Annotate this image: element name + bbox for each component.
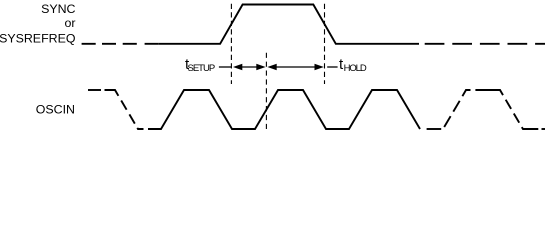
wire OSCIN low corner dash right <box>522 127 539 129</box>
node setup reference dashed line <box>230 4 232 84</box>
wire tHOLD leader <box>327 66 337 68</box>
wire SYNC low dashed right <box>425 43 545 45</box>
svg-text:SYNC: SYNC <box>41 2 75 16</box>
wire OSCIN solid clock <box>148 90 420 129</box>
wire OSCIN first corner piece <box>105 90 119 96</box>
wire SYNC low dashed left <box>82 43 159 45</box>
svg-text:HOLD: HOLD <box>344 63 367 74</box>
wire SYNC pulse solid <box>159 5 419 44</box>
wire OSCIN low corner dash <box>137 128 143 129</box>
svg-text:SETUP: SETUP <box>188 63 215 74</box>
svg-text:SYSREFREQ: SYSREFREQ <box>0 32 76 46</box>
wire OSCIN low end dash <box>542 128 545 130</box>
wire tSETUP arrow <box>233 64 266 71</box>
wire tHOLD arrow <box>267 64 323 71</box>
wire OSCIN rising edge dash 2 <box>453 101 459 112</box>
wire OSCIN falling edge dash 2 <box>129 114 134 123</box>
wire OSCIN falling edge dash 1 <box>121 101 126 110</box>
node oscin edge reference dashed line <box>265 53 267 129</box>
wire tSETUP leader <box>219 66 231 68</box>
wire OSCIN falling edge dash 4 <box>514 114 519 123</box>
node hold reference dashed line <box>324 4 326 84</box>
wire OSCIN falling edge dash 3 <box>506 100 511 109</box>
wire OSCIN high dash left <box>88 89 101 91</box>
svg-text:or: or <box>64 16 75 30</box>
svg-text:OSCIN: OSCIN <box>36 102 75 116</box>
wire OSCIN top long dash with corner <box>475 90 503 95</box>
wire OSCIN low dash right <box>427 128 442 130</box>
wire OSCIN top corner piece <box>462 90 470 96</box>
wire OSCIN rising edge dash 1 <box>444 116 450 127</box>
